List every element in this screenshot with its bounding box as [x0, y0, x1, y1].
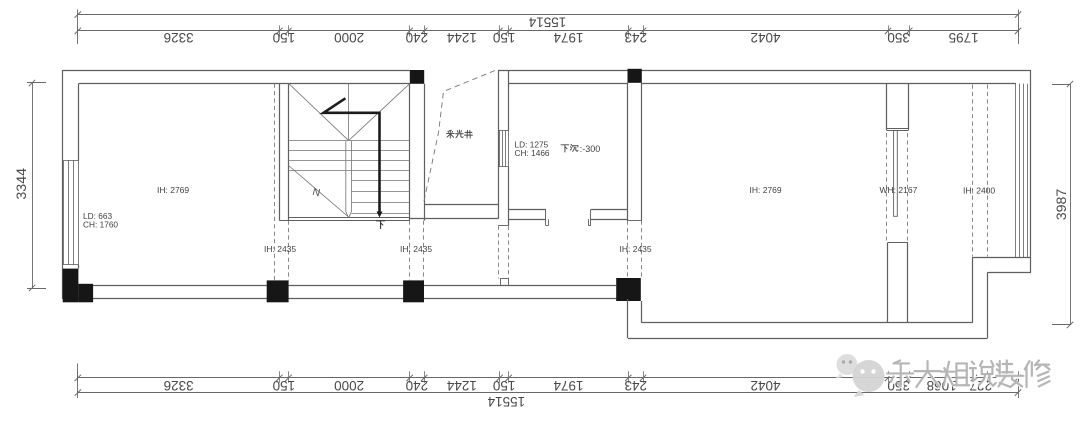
svg-text:150: 150 [273, 30, 296, 45]
dashed opening below big-room-left wall b [641, 221, 643, 278]
svg-text:IH: 2435: IH: 2435 [620, 244, 652, 254]
wall middle-room bottom right segment + jamb (door D1 gap) [588, 209, 627, 225]
door leaf sliding (WH:2167 opening) [894, 130, 898, 216]
wall top outer [63, 70, 410, 72]
column C2 below stair-left wall [267, 280, 289, 302]
dashed opening below middle-room-left wall b [508, 226, 510, 279]
svg-text:3987: 3987 [1054, 189, 1070, 221]
svg-text:1795: 1795 [949, 30, 979, 45]
dashed opening WH2167 b [907, 133, 909, 241]
stair bottom wall line [279, 220, 409, 222]
svg-text:150: 150 [273, 378, 296, 393]
svg-text:3326: 3326 [164, 30, 194, 45]
svg-text:240: 240 [406, 30, 429, 45]
svg-text:4042: 4042 [750, 30, 780, 45]
svg-text:243: 243 [624, 378, 647, 393]
dashed opening below stair-right wall a [409, 221, 411, 281]
svg-text:IH: 2400: IH: 2400 [963, 186, 995, 196]
stair label down [376, 221, 384, 229]
svg-text:15514: 15514 [528, 14, 566, 29]
wall step outer vertical right [987, 272, 989, 338]
svg-text::-300: :-300 [580, 144, 601, 154]
wall bay bottom outer [988, 272, 1032, 274]
wall step inner vertical right [972, 257, 974, 323]
svg-text:243: 243 [624, 30, 647, 45]
svg-text:4042: 4042 [750, 378, 780, 393]
wall big/right room lower part [888, 242, 908, 322]
svg-text:3326: 3326 [164, 378, 194, 393]
dashed bay line a [972, 85, 974, 257]
label sunken -300 [561, 145, 569, 152]
dashed opening below stair-right wall b [423, 221, 425, 281]
wall stub below corridor opening [500, 279, 508, 286]
svg-text:1974: 1974 [553, 30, 584, 45]
wall top outer right part [498, 70, 1031, 72]
wall left inner upper [78, 83, 80, 160]
dimension right 3987 [1052, 81, 1073, 328]
wall middle-room bottom left segment + jamb [509, 209, 549, 225]
window W2 middle room [498, 130, 508, 167]
wall right outer [1030, 70, 1032, 272]
dimension left 3344 [14, 80, 46, 291]
wall step outer vertical left [627, 299, 629, 338]
stair direction arrow (down path) [324, 98, 383, 217]
column C5 top of stair-right wall [410, 70, 424, 84]
wall light-well bottom [410, 205, 498, 219]
column C3 below stair-right wall [403, 280, 424, 302]
wall bottom outer left part [63, 298, 628, 300]
dashed opening below big-room-left wall a [627, 221, 629, 278]
wall bottom inner seg1 [93, 285, 267, 287]
svg-text:IH: 2435: IH: 2435 [400, 244, 432, 254]
dashed beam line left room [274, 84, 276, 281]
label light well [447, 130, 455, 138]
dashed light-well boundary [424, 71, 496, 204]
svg-text:2000: 2000 [334, 378, 364, 393]
wall top inner left [79, 83, 410, 85]
wall big-room bottom inner [642, 322, 973, 324]
dashed opening below middle-room-left wall a [498, 226, 500, 279]
wall middle-room left [498, 70, 508, 226]
window W1 left wall [63, 160, 78, 265]
svg-text:350: 350 [887, 30, 910, 45]
wall bay bottom inner [973, 257, 1032, 259]
svg-text:1244: 1244 [446, 30, 477, 45]
svg-text:CH: 1466: CH: 1466 [515, 148, 550, 158]
svg-text:3344: 3344 [14, 168, 30, 200]
svg-text:IH: 2435: IH: 2435 [264, 244, 296, 254]
wall big-room left [628, 83, 642, 221]
window W3 right wall band [1016, 84, 1028, 258]
stair floor edge bottom [289, 217, 410, 219]
dashed bay line b [987, 85, 989, 257]
watermark logo bubbles [836, 354, 885, 397]
svg-text:1244: 1244 [446, 378, 477, 393]
dashed opening below stair-left wall [288, 221, 290, 281]
wall stair-right [410, 84, 425, 221]
column C1 bottom-left (L-shape) [63, 269, 79, 303]
wall left outer [62, 70, 64, 299]
wall left inner lower stub [78, 265, 80, 269]
wall big-room bottom inner left vertical [641, 301, 643, 323]
svg-text:CH: 1760: CH: 1760 [83, 220, 118, 230]
svg-text:IH: 2769: IH: 2769 [157, 185, 189, 195]
wall bottom inner seg3 [424, 285, 616, 287]
wall top inner big room [642, 83, 1016, 85]
svg-text:150: 150 [493, 378, 516, 393]
column C6 top of big-room-left wall [628, 69, 642, 83]
svg-text:15514: 15514 [487, 394, 525, 409]
wall bottom inner seg2 [289, 285, 404, 287]
wall bottom outer lower [628, 338, 988, 340]
dimension chain top (15514 total) [75, 10, 1022, 45]
wall stair-left (left room partition) [280, 83, 289, 220]
dimension chain bottom (15514 total) [75, 364, 1022, 409]
svg-text:1974: 1974 [553, 378, 584, 393]
dashed opening WH2167 a [886, 133, 888, 241]
staircase treads and diagonals [289, 83, 410, 218]
wall top inner middle room [509, 83, 628, 85]
svg-text:2000: 2000 [334, 30, 364, 45]
watermark text [889, 362, 1051, 389]
svg-text:150: 150 [493, 30, 516, 45]
svg-text:IH: 2769: IH: 2769 [750, 185, 782, 195]
column C4 below big-room-left wall [616, 278, 641, 301]
svg-text:WH: 2167: WH: 2167 [880, 185, 918, 195]
svg-text:240: 240 [406, 378, 429, 393]
wall big/right room top stub [887, 84, 909, 131]
